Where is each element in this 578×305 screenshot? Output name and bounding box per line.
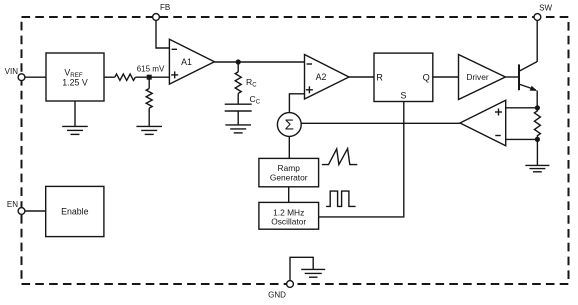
ground below CC	[225, 125, 251, 133]
svg-text:S: S	[400, 91, 406, 101]
pin VIN	[18, 74, 25, 81]
resistor RC (compensation)	[235, 62, 241, 104]
summer (sigma)	[277, 113, 301, 137]
wire A2 + input from summer	[289, 94, 304, 113]
resistor R1 (series, horizontal)	[115, 74, 136, 80]
svg-text:Q: Q	[423, 72, 430, 82]
op-amp A1	[169, 39, 214, 84]
ramp generator block	[259, 158, 319, 186]
svg-text:1.25 V: 1.25 V	[62, 78, 88, 88]
resistor RSENSE (current sense)	[534, 108, 540, 140]
oscillator block 1.2 MHz	[259, 202, 319, 229]
svg-text:EN: EN	[7, 200, 18, 209]
pin FB	[153, 14, 160, 21]
op-amp A2	[305, 55, 350, 100]
wire oscillator to latch S input	[319, 102, 404, 217]
wire VIN to VREF	[25, 76, 46, 78]
wire comparator - input	[506, 138, 538, 140]
wire summer to ramp generator	[288, 136, 290, 158]
sawtooth waveform icon	[322, 149, 357, 165]
wire GND pin to ground symbol	[290, 257, 313, 280]
pin EN	[18, 208, 25, 215]
svg-text:615 mV: 615 mV	[137, 65, 165, 74]
wire ramp generator to oscillator	[288, 187, 290, 203]
junction at A1 output	[236, 59, 241, 64]
svg-text:VIN: VIN	[5, 67, 19, 76]
capacitor CC (compensation)	[225, 104, 252, 125]
wire comparator + input	[506, 107, 538, 109]
wire A2 output to latch R input	[349, 76, 374, 78]
wire Q1 emitter to sense junction	[536, 91, 538, 108]
node 615 mV junction	[147, 75, 152, 80]
wire sense resistor to ground	[536, 139, 538, 165]
junction emitter / comparator +	[535, 105, 540, 110]
svg-text:Generator: Generator	[270, 172, 308, 182]
transistor Q1 (NPN switch)	[519, 62, 537, 91]
svg-text:GND: GND	[268, 291, 286, 300]
wire EN pin to enable block	[25, 210, 46, 212]
svg-text:R: R	[376, 72, 383, 82]
wire driver to Q1 base	[505, 76, 519, 78]
enable block	[46, 186, 104, 236]
svg-text:SW: SW	[539, 4, 552, 13]
wire R1 to A1 + input through 615 mV node	[135, 76, 169, 78]
svg-text:Oscillator: Oscillator	[271, 217, 306, 227]
driver	[459, 55, 506, 100]
voltage reference VREF 1.25 V	[46, 53, 104, 101]
svg-text:A1: A1	[181, 57, 192, 67]
pin SW	[534, 14, 541, 21]
svg-text:A2: A2	[316, 72, 327, 82]
resistor R2 (shunt, vertical below 615 mV node)	[146, 77, 152, 126]
ground below R2	[136, 126, 162, 134]
ground at GND pin	[301, 269, 325, 277]
ground below VREF	[62, 101, 88, 134]
svg-text:Σ: Σ	[285, 116, 294, 133]
wire Q1 collector to SW pin	[536, 20, 538, 62]
square wave icon	[326, 191, 356, 206]
junction sense resistor / comparator -	[535, 137, 540, 142]
wire latch Q to driver	[433, 76, 459, 78]
wire A1 output to A2 - input	[214, 61, 304, 63]
wire FB pin to A1 - input	[156, 20, 169, 48]
svg-text:FB: FB	[160, 3, 170, 12]
wire comparator output to summer	[301, 122, 460, 124]
comparator (current sense, points left)	[460, 100, 506, 145]
pin GND	[287, 281, 294, 288]
latch (RS flip-flop)	[374, 53, 433, 101]
ground below sense resistor	[525, 165, 549, 171]
svg-text:Enable: Enable	[61, 207, 88, 217]
svg-text:Driver: Driver	[466, 72, 489, 82]
wire VREF to resistor R1	[104, 76, 115, 78]
